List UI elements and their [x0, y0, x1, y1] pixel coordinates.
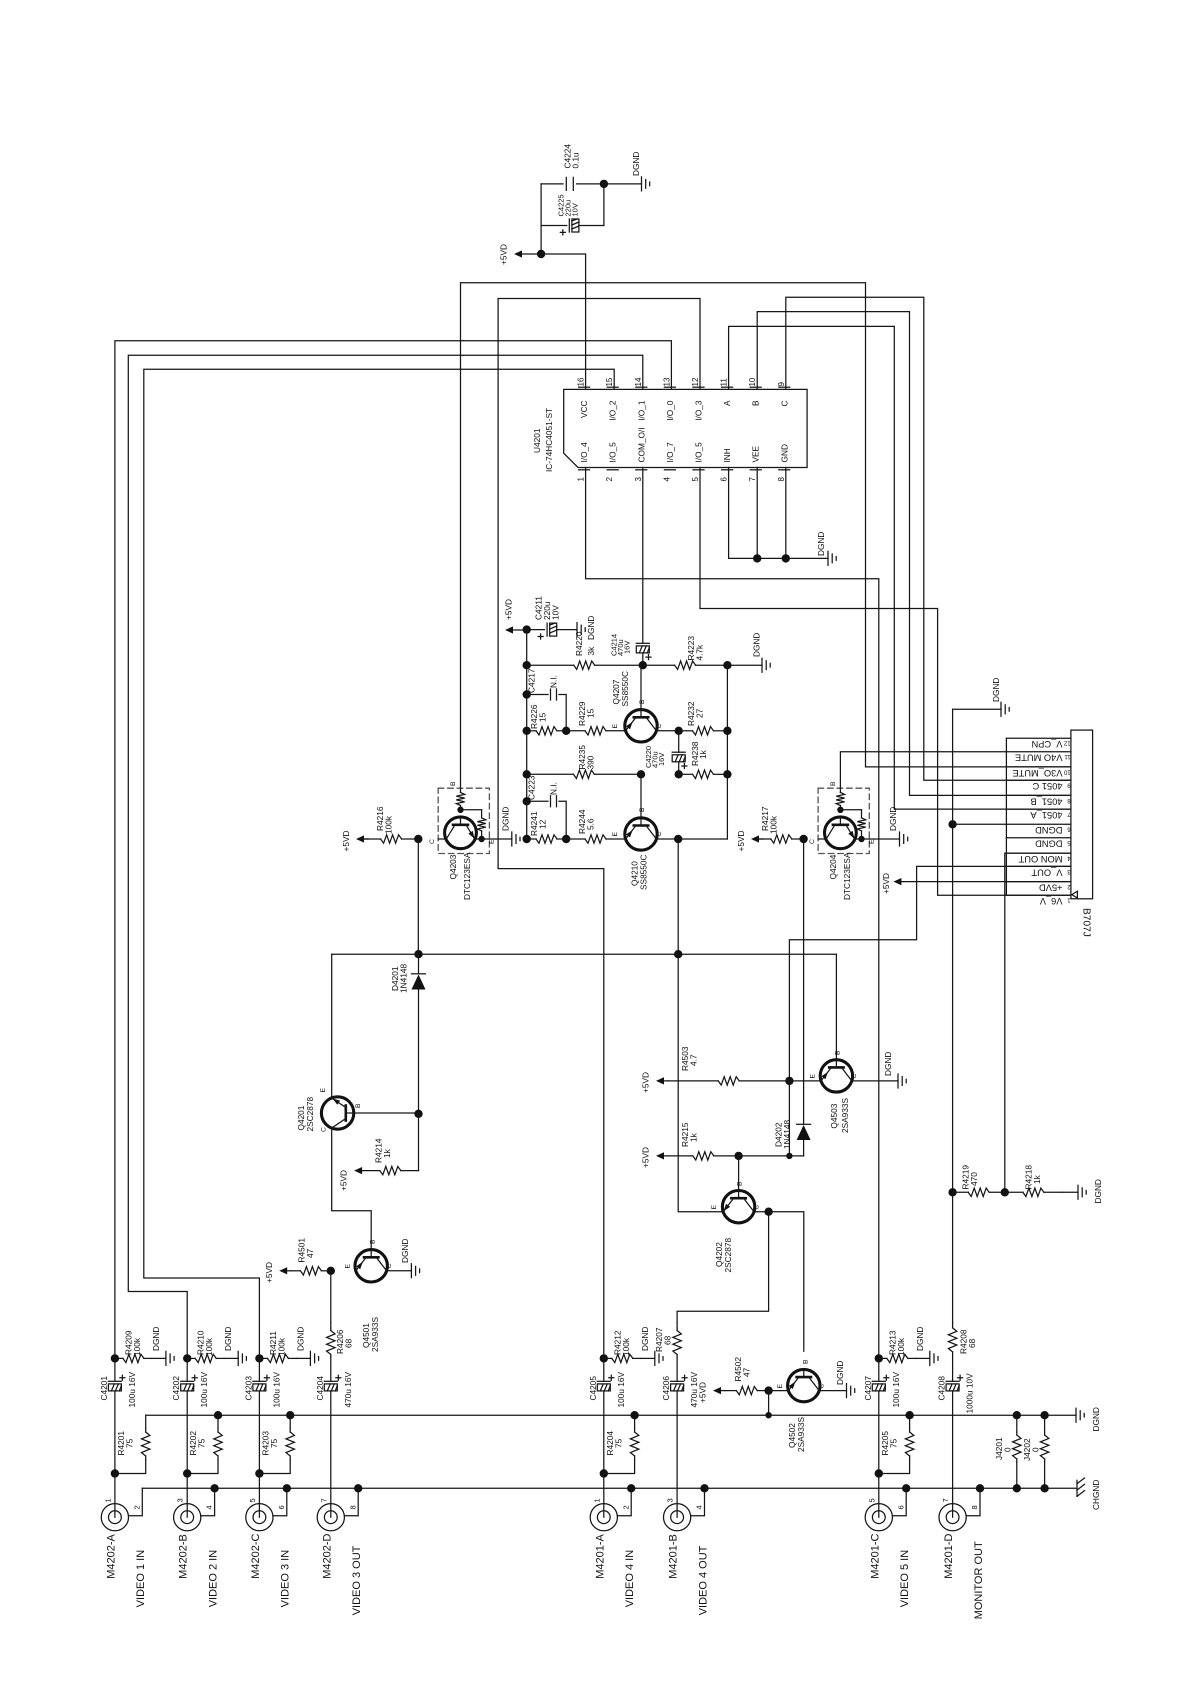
resistor R4218 1k	[1005, 1191, 1023, 1193]
svg-text:6: 6	[1067, 826, 1071, 833]
junction pin7 VEE/INH	[753, 554, 761, 562]
svg-text:5: 5	[691, 477, 700, 482]
svg-text:11: 11	[1064, 753, 1071, 760]
wire pin13 I/O_0 to video1	[115, 341, 672, 1359]
svg-text:E: E	[488, 839, 495, 844]
power +5VD R4216	[356, 835, 364, 842]
svg-text:N.I.: N.I.	[549, 675, 559, 688]
wire DGND drop	[952, 709, 954, 1192]
wire C4224/C4225 loop	[540, 184, 542, 254]
power +5VD R4503	[656, 1077, 664, 1084]
junction R4203/bus	[286, 1411, 294, 1419]
svg-text:V4O MUTE: V4O MUTE	[1015, 753, 1063, 763]
diode D4202 1N4148	[797, 1125, 811, 1140]
junction M4202-C shield	[283, 1484, 291, 1492]
power +5VD R4217	[751, 835, 759, 842]
ground DGND R4218	[1062, 1191, 1078, 1193]
svg-text:2SC2878: 2SC2878	[723, 1238, 733, 1273]
svg-text:16V: 16V	[657, 753, 666, 766]
svg-text:+5VD: +5VD	[499, 244, 509, 265]
junction J707B pin6 DGND	[948, 820, 956, 828]
junction J4202/bus1	[1040, 1411, 1048, 1419]
wire pin3 COM_O/I	[642, 468, 644, 644]
svg-text:+5VD: +5VD	[264, 1262, 274, 1283]
svg-text:47: 47	[305, 1248, 315, 1258]
ground bus R-row	[146, 1414, 1076, 1416]
svg-text:8: 8	[970, 1505, 979, 1509]
wire Q4201 collector to Q4501 base	[332, 1128, 372, 1250]
junction C4202 bottom	[183, 1469, 191, 1477]
wire Q4502 E stub to bus	[769, 1390, 790, 1392]
svg-text:DGND: DGND	[1093, 1179, 1103, 1203]
transistor Q4210 SS8550C	[625, 818, 657, 850]
svg-text:Q4503: Q4503	[829, 1103, 839, 1128]
svg-text:INH: INH	[722, 448, 732, 462]
svg-text:68: 68	[967, 1338, 977, 1348]
svg-text:4051 C: 4051 C	[1032, 781, 1062, 791]
capacitor C4206 470u 16V	[671, 1380, 684, 1382]
junction R4216/Q4203C	[414, 835, 422, 843]
capacitor C4217 N.L.	[527, 694, 548, 696]
svg-text:E: E	[777, 1384, 784, 1389]
svg-text:+5VD: +5VD	[1039, 883, 1063, 893]
svg-text:10V: 10V	[571, 203, 580, 216]
junction R4202/bus	[214, 1411, 222, 1419]
svg-text:6: 6	[720, 477, 729, 482]
svg-text:16V: 16V	[623, 641, 632, 654]
svg-text:2SA933S: 2SA933S	[840, 1097, 850, 1133]
resistor R4232 27	[679, 730, 693, 732]
svg-text:DGND: DGND	[631, 152, 641, 176]
wire V3OUT net 954	[332, 953, 837, 955]
svg-text:DGND: DGND	[295, 1327, 305, 1351]
svg-text:100u 16V: 100u 16V	[127, 1372, 137, 1408]
junction R4205/bus	[905, 1411, 913, 1419]
svg-text:DGND: DGND	[1035, 839, 1063, 849]
junction J4201/bus2	[1013, 1484, 1021, 1492]
svg-text:470: 470	[969, 1172, 979, 1186]
svg-text:CHGND: CHGND	[1091, 1480, 1101, 1510]
svg-text:75: 75	[613, 1438, 623, 1448]
wire pin12 I/O_3 to video4	[498, 299, 700, 1359]
svg-text:DGND: DGND	[501, 807, 511, 831]
svg-text:4051_A: 4051_A	[1030, 810, 1063, 820]
power +5VD J707B pin2	[893, 878, 901, 885]
capacitor C4211	[527, 629, 545, 631]
wire Q4202 base	[738, 1156, 740, 1191]
svg-text:C4203: C4203	[243, 1376, 253, 1401]
junction R4502/Q4502E	[764, 1386, 772, 1394]
svg-text:15: 15	[538, 712, 548, 722]
J707B pin 6 DGND	[1006, 823, 1071, 825]
resistor R4226 15	[527, 730, 536, 732]
svg-text:4: 4	[662, 477, 671, 482]
svg-text:V6_V: V6_V	[1039, 896, 1063, 906]
capacitor C4224	[541, 183, 563, 185]
resistor R4501 47	[291, 1270, 300, 1272]
svg-text:75: 75	[197, 1438, 207, 1448]
power +5VD rail cluster	[505, 626, 513, 633]
resistor R4217 100k	[759, 838, 771, 840]
junction V3 line/954	[674, 950, 682, 958]
capacitor C4204 470u 16V	[324, 1380, 337, 1382]
svg-text:2: 2	[132, 1505, 141, 1509]
svg-text:68: 68	[663, 1335, 673, 1345]
svg-text:+5VD: +5VD	[339, 1170, 349, 1191]
wire C4202 to connector	[186, 1474, 188, 1504]
svg-text:DGND: DGND	[835, 1361, 845, 1385]
diode D4201 1N4148	[418, 954, 420, 973]
transistor Q4503 2SA933S	[820, 1060, 852, 1092]
junction C4201 top	[111, 1354, 119, 1362]
J707B pin 3 V_OUT	[1006, 865, 1071, 867]
svg-text:15: 15	[586, 708, 596, 718]
junction R4215/Q4202B	[734, 1152, 742, 1160]
junction C4202 top	[183, 1354, 191, 1362]
svg-text:VIDEO 4 IN: VIDEO 4 IN	[624, 1550, 636, 1608]
resistor R4209 100k	[115, 1357, 123, 1359]
wire Q4204C down to D4202	[803, 839, 805, 1124]
resistor R4235 390	[527, 773, 574, 775]
J707B pin 11 V4O MUTE	[1006, 751, 1071, 753]
junction R4241/R4244	[562, 835, 570, 843]
svg-text:V_OUT: V_OUT	[1031, 867, 1062, 877]
svg-text:5: 5	[867, 1498, 876, 1502]
transistor Q4207 SS8550C	[625, 710, 657, 742]
wire pin9 C to J707B pin9	[786, 297, 1071, 780]
ground DGND R4211	[296, 1357, 310, 1359]
J707B pin 8 4051_B	[1006, 794, 1071, 796]
J707B pin 7 4051_A	[1006, 808, 1071, 810]
svg-text:VIDEO 3 IN: VIDEO 3 IN	[280, 1550, 292, 1608]
svg-text:DTC123ESA: DTC123ESA	[462, 852, 472, 900]
junction rail/R4220	[523, 661, 531, 669]
svg-text:M4202-B: M4202-B	[178, 1534, 190, 1579]
resistor R4207 68	[676, 1323, 678, 1328]
svg-text:2: 2	[605, 477, 614, 482]
svg-text:14: 14	[634, 377, 643, 386]
svg-text:C4223: C4223	[527, 775, 537, 800]
shield bus	[142, 1487, 1077, 1489]
junction R4223/out bus	[723, 661, 731, 669]
svg-text:10V: 10V	[551, 605, 561, 620]
junction C4203 top	[255, 1354, 263, 1362]
capacitor C4220 470u 16V	[678, 731, 680, 752]
junction VOUT/base row	[786, 1153, 792, 1159]
junction D4201/net954	[414, 950, 422, 958]
svg-text:7: 7	[319, 1498, 328, 1502]
svg-text:U4201: U4201	[532, 428, 542, 453]
junction Q4201B/D4201	[414, 1110, 422, 1118]
svg-text:E: E	[612, 724, 619, 729]
svg-text:I/O_0: I/O_0	[665, 400, 675, 421]
svg-text:C4205: C4205	[588, 1376, 598, 1401]
svg-text:B: B	[834, 1050, 841, 1055]
capacitor C4207 100u 16V	[878, 1358, 880, 1381]
svg-text:7: 7	[941, 1498, 950, 1502]
wire Q4201 base	[354, 1112, 419, 1114]
svg-text:1: 1	[1067, 897, 1071, 904]
svg-text:M4201-D: M4201-D	[943, 1534, 955, 1579]
svg-text:47: 47	[742, 1367, 752, 1377]
junction rail/C4217	[523, 690, 531, 698]
svg-text:M4202-A: M4202-A	[105, 1534, 117, 1579]
J707B pin 5 DGND	[1006, 837, 1071, 839]
resistor R4212 100k	[604, 1357, 612, 1359]
svg-text:C4217: C4217	[527, 668, 537, 693]
svg-text:M4201-C: M4201-C	[869, 1534, 881, 1579]
svg-text:7: 7	[748, 477, 757, 482]
svg-text:C4208: C4208	[937, 1376, 947, 1401]
svg-text:SS8550C: SS8550C	[639, 854, 649, 890]
transistor Q4204 DTC123ESA	[818, 788, 869, 853]
connector M4202-C VIDEO 3 IN	[246, 1504, 273, 1531]
junction R4238/out bus	[723, 770, 731, 778]
svg-text:7: 7	[1067, 811, 1071, 818]
ground DGND R4210	[224, 1357, 238, 1359]
svg-text:N.I.: N.I.	[549, 782, 559, 795]
svg-text:+5VD: +5VD	[736, 831, 746, 852]
junction rail/C4223	[523, 797, 531, 805]
svg-text:MON OUT: MON OUT	[1018, 854, 1062, 864]
wire monitor column	[952, 1192, 954, 1323]
ground DGND bus	[1076, 1408, 1084, 1422]
svg-text:100k: 100k	[621, 1337, 631, 1356]
svg-text:I/O_1: I/O_1	[636, 400, 646, 421]
junction Q4210C/V3 line	[674, 835, 682, 843]
svg-text:1k: 1k	[1032, 1174, 1042, 1184]
svg-text:E: E	[320, 1088, 327, 1093]
power +5VD main	[514, 250, 522, 257]
svg-text:+5VD: +5VD	[504, 599, 514, 620]
capacitor C4201 100u 16V	[114, 1358, 116, 1381]
svg-text:M4201-B: M4201-B	[668, 1534, 680, 1579]
svg-text:75: 75	[269, 1438, 279, 1448]
svg-text:DGND: DGND	[915, 1327, 925, 1351]
svg-text:1: 1	[577, 477, 586, 482]
capacitor C4208 1000u 10V	[946, 1380, 959, 1382]
junction Q4207C/C4220	[675, 727, 683, 735]
wire Q4202 base row to D4202	[739, 1155, 804, 1157]
junction VOUT/R4503	[785, 1077, 793, 1085]
capacitor C4205 100u 16V	[603, 1358, 605, 1381]
svg-text:GND: GND	[779, 444, 789, 462]
svg-text:I/O_2: I/O_2	[608, 400, 618, 421]
junction rail/R4241	[523, 835, 531, 843]
svg-text:5: 5	[248, 1498, 257, 1502]
resistor R4502 47	[725, 1390, 736, 1392]
svg-text:B707J: B707J	[1081, 908, 1092, 937]
svg-text:I/O_7: I/O_7	[665, 442, 675, 463]
svg-text:100u 16V: 100u 16V	[891, 1372, 901, 1408]
junction Q4202C/video4out	[764, 1208, 772, 1216]
transistor Q4202 2SC2878	[722, 1191, 754, 1223]
ground DGND R4209	[152, 1357, 166, 1359]
wire Q4207 collector	[656, 730, 678, 732]
svg-text:M4202-C: M4202-C	[250, 1534, 262, 1579]
svg-text:DGND: DGND	[223, 1327, 233, 1351]
wire R4503 to Q4503 E	[789, 1080, 821, 1082]
svg-text:VIDEO 3 OUT: VIDEO 3 OUT	[351, 1545, 363, 1615]
wire C4205 to connector	[603, 1474, 605, 1504]
wire V40_MUTE to Q4204	[840, 752, 1006, 789]
jumper J4202 0	[1044, 1415, 1046, 1432]
resistor R4211 100k	[259, 1357, 267, 1359]
svg-text:8: 8	[1067, 797, 1071, 804]
svg-text:100k: 100k	[276, 1337, 286, 1356]
svg-text:B: B	[803, 1359, 810, 1364]
wire pin11 A to J707B pin7	[729, 326, 1071, 809]
resistor R4214 1k	[362, 1170, 380, 1172]
svg-text:10: 10	[748, 377, 757, 386]
wire pin10 B to J707B pin8	[757, 312, 1071, 796]
wire Q4501E to video3 out	[330, 1271, 332, 1323]
wire V30_MUTE bus Q4203 base to J707B pin10	[461, 283, 1071, 789]
junction R4219/R4218	[1001, 1188, 1009, 1196]
svg-text:VIDEO 2 IN: VIDEO 2 IN	[208, 1550, 220, 1608]
junction M4201-C shield	[902, 1484, 910, 1492]
J707B pin 12 V_CPN	[1006, 737, 1071, 739]
svg-text:B: B	[639, 699, 646, 704]
junction C4205 bottom	[600, 1469, 608, 1477]
svg-text:R4220: R4220	[574, 631, 584, 656]
junction pin8 GND/INH	[782, 554, 790, 562]
resistor R4204 75	[634, 1415, 636, 1428]
ground DGND J707B	[953, 708, 1001, 710]
svg-text:I/O_4: I/O_4	[579, 442, 589, 463]
svg-text:IC-74HC4051-ST: IC-74HC4051-ST	[544, 408, 554, 472]
power +5VD R4215	[656, 1152, 664, 1159]
connector M4201-B VIDEO 4 OUT	[664, 1504, 691, 1531]
junction R4232/out bus	[723, 727, 731, 735]
wire pin6 INH to DGND	[729, 468, 828, 559]
svg-text:12: 12	[1063, 740, 1070, 747]
svg-text:100k: 100k	[132, 1337, 142, 1356]
transistor Q4502 2SA933S	[788, 1369, 820, 1401]
svg-text:5: 5	[1067, 839, 1071, 846]
power +5VD R4501	[279, 1267, 287, 1274]
wire pin1 I/O_4 to video5	[586, 468, 879, 1359]
J707B pin 2 +5VD	[1006, 881, 1071, 883]
svg-text:+5VD: +5VD	[641, 1147, 651, 1168]
connector M4201-C VIDEO 5 IN	[865, 1504, 892, 1531]
svg-text:4.7k: 4.7k	[695, 644, 705, 661]
svg-text:V_CPN: V_CPN	[1031, 739, 1062, 749]
resistor R4216 100k	[364, 838, 381, 840]
transistor Q4201 2SC2878	[321, 1097, 353, 1129]
resistor R4205 75	[909, 1415, 911, 1428]
wire V_OUT J707B pin3	[789, 866, 1071, 1156]
transistor Q4203 DTC123ESA	[438, 788, 489, 853]
svg-text:16: 16	[577, 377, 586, 386]
svg-text:75: 75	[888, 1438, 898, 1448]
svg-text:V3O_MUTE: V3O_MUTE	[1012, 768, 1062, 778]
junction C4205 top	[600, 1354, 608, 1362]
ground DGND Q4501	[387, 1270, 412, 1272]
resistor R4215 1k	[668, 1155, 693, 1157]
svg-text:1k: 1k	[689, 1132, 699, 1142]
svg-text:6: 6	[896, 1505, 905, 1509]
svg-text:0: 0	[1003, 1447, 1013, 1452]
svg-text:3k: 3k	[586, 646, 596, 656]
svg-text:12: 12	[538, 819, 548, 829]
svg-text:C4204: C4204	[315, 1376, 325, 1401]
wire net954 to Q4503 B	[835, 954, 837, 1059]
svg-text:4: 4	[205, 1505, 214, 1509]
svg-text:B: B	[737, 1181, 744, 1186]
svg-text:100u 16V: 100u 16V	[616, 1372, 626, 1408]
svg-text:2: 2	[621, 1505, 630, 1509]
junction C4220/R4238	[675, 770, 683, 778]
junction C4224/DGND	[600, 180, 608, 188]
svg-text:100u 16V: 100u 16V	[199, 1372, 209, 1408]
capacitor C4225	[541, 225, 567, 227]
svg-text:DGND: DGND	[752, 633, 762, 657]
svg-text:470u 16V: 470u 16V	[343, 1372, 353, 1408]
svg-text:E: E	[612, 832, 619, 837]
svg-text:1k: 1k	[698, 749, 708, 759]
svg-text:Q4204: Q4204	[828, 854, 838, 879]
svg-text:B: B	[450, 781, 457, 786]
wire MON OUT	[1005, 853, 1071, 1192]
J707B pin 10 V3O_MUTE	[1006, 766, 1071, 768]
J707B pin 4 MON OUT	[1006, 852, 1071, 854]
svg-text:E: E	[810, 1074, 817, 1079]
svg-text:DGND: DGND	[1035, 825, 1063, 835]
svg-text:1N4148: 1N4148	[782, 1120, 792, 1149]
svg-text:B: B	[830, 781, 837, 786]
svg-text:13: 13	[662, 377, 671, 386]
junction J4201/bus1	[1013, 1411, 1021, 1419]
svg-text:+5VD: +5VD	[881, 873, 891, 894]
capacitor C4223 N.L.	[527, 800, 548, 802]
svg-text:VEE: VEE	[751, 445, 761, 462]
wire pin14 I/O_1 to video2	[128, 355, 643, 1358]
svg-text:2SA933S: 2SA933S	[370, 1316, 380, 1352]
junction R4226/R4229	[562, 727, 570, 735]
svg-text:11: 11	[720, 378, 729, 387]
capacitor C4214 470u 16V	[636, 642, 649, 644]
svg-text:DGND: DGND	[883, 1052, 893, 1076]
wire D4201 to R4214	[418, 1114, 420, 1171]
svg-text:E: E	[868, 839, 875, 844]
resistor R4213 100k	[879, 1357, 887, 1359]
wire C4201 to connector	[114, 1474, 116, 1504]
wire video4out branch	[677, 1212, 769, 1323]
svg-text:E: E	[345, 1264, 352, 1269]
svg-text:B: B	[639, 807, 646, 812]
svg-text:B: B	[355, 1103, 362, 1108]
svg-text:M4201-A: M4201-A	[594, 1534, 606, 1579]
svg-text:390: 390	[586, 755, 596, 769]
svg-text:C4201: C4201	[99, 1376, 109, 1401]
transistor Q4501 2SA933S	[355, 1250, 387, 1282]
junction M4201-A shield	[627, 1484, 635, 1492]
svg-text:VIDEO 1 IN: VIDEO 1 IN	[135, 1550, 147, 1608]
svg-text:DTC123ESA: DTC123ESA	[842, 852, 852, 900]
svg-text:A: A	[722, 400, 732, 406]
junction rail top	[523, 625, 531, 633]
chassis ground CHGND	[1076, 1480, 1078, 1496]
junction Q4502E/bus	[765, 1412, 771, 1418]
junction M4201-D shield	[976, 1484, 984, 1492]
wire Q4202 collector	[754, 1212, 804, 1352]
svg-text:I/O_5: I/O_5	[608, 442, 618, 463]
svg-text:I/O_5: I/O_5	[694, 442, 704, 463]
svg-text:470u 16V: 470u 16V	[689, 1372, 699, 1408]
svg-text:27: 27	[695, 708, 705, 718]
connector M4202-A VIDEO 1 IN	[101, 1504, 128, 1531]
